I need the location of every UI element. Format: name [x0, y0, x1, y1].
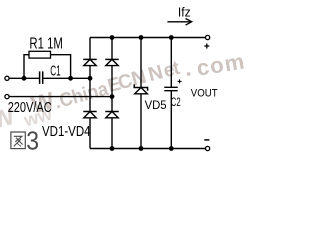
svg-text:3: 3 — [26, 126, 39, 156]
svg-text:Ifz: Ifz — [178, 6, 191, 20]
svg-text:VD1-VD4: VD1-VD4 — [42, 124, 91, 140]
svg-text:VD5: VD5 — [145, 98, 167, 112]
svg-text:C2: C2 — [171, 96, 181, 109]
svg-text:VOUT: VOUT — [191, 88, 218, 100]
svg-text:com: com — [195, 48, 246, 80]
svg-text:C1: C1 — [50, 63, 61, 79]
svg-text:.: . — [183, 54, 193, 81]
svg-text:220V/AC: 220V/AC — [8, 100, 52, 116]
svg-text:R1 1M: R1 1M — [29, 36, 63, 53]
svg-text:.China: .China — [52, 78, 111, 114]
